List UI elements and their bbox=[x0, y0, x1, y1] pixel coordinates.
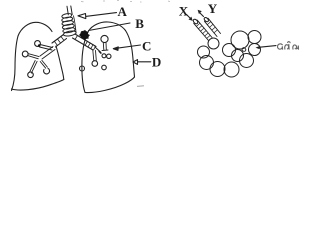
small vertical bronchiole bbox=[93, 50, 97, 61]
svg-text:B: B bbox=[135, 16, 144, 31]
twin circle a bbox=[102, 54, 106, 58]
alveolus bottom-middle-right bbox=[224, 62, 239, 77]
left bronchus rungs bbox=[55, 37, 65, 46]
c2 stalk bbox=[28, 54, 39, 59]
tube X (bronchiole) opening bbox=[192, 18, 198, 24]
bronchiole c4 loop bbox=[44, 68, 50, 74]
label D arrowhead (open) bbox=[133, 60, 138, 65]
label C leader bbox=[116, 45, 141, 48]
alveolus big top-right bbox=[231, 31, 249, 49]
c1 stalk bbox=[40, 45, 53, 51]
inner tube from bronchus bbox=[95, 47, 101, 53]
left lung left edge bbox=[12, 36, 19, 91]
trachea right wall bbox=[74, 16, 77, 34]
C-circle stem bbox=[102, 43, 108, 51]
faint bottom dash bbox=[137, 85, 144, 88]
right bronchus tube bbox=[73, 34, 97, 50]
trachea coil ring 6 bbox=[63, 30, 76, 37]
trachea coil ring 2 bbox=[61, 16, 73, 22]
trachea coil ring 4 bbox=[62, 23, 75, 29]
alveolus bottom-middle-left bbox=[210, 62, 225, 77]
label A leader bbox=[86, 13, 117, 17]
Y arrowhead bbox=[198, 10, 202, 14]
tube Y (vessel) opening bbox=[203, 17, 209, 23]
svg-text:D: D bbox=[152, 54, 161, 69]
right bronchus rungs bbox=[75, 36, 96, 50]
bronchiole c3 circle bbox=[28, 72, 34, 78]
alveolus left bbox=[198, 46, 210, 58]
alveolus inner squiggle bbox=[242, 48, 246, 52]
svg-text:X: X bbox=[179, 4, 189, 19]
alveolus right bbox=[249, 44, 261, 56]
small circle bottom-left of right lung bbox=[80, 66, 85, 71]
blockage blob (B target) bbox=[79, 30, 89, 40]
right lung right edge bbox=[126, 31, 135, 78]
arm down-left to c3 bbox=[30, 61, 38, 74]
tube Y rungs bbox=[207, 22, 217, 33]
small circle below vertical tube bbox=[92, 61, 98, 67]
tube Y walls bbox=[205, 18, 221, 36]
trachea top tube bbox=[67, 6, 72, 15]
X arrowhead bbox=[189, 17, 193, 21]
left lung bottom edge bbox=[12, 80, 64, 91]
right lung outline top dome bbox=[89, 22, 126, 31]
caption text (Sinhala-like scribble) bbox=[278, 42, 299, 50]
alveolus top-right bbox=[248, 31, 261, 44]
caption arrowhead bbox=[256, 46, 261, 49]
alveolus lower-right bbox=[240, 54, 254, 68]
label A arrowhead (open) bbox=[78, 14, 86, 19]
alveolus center-left bbox=[208, 38, 219, 49]
alveolus center-right bridge bbox=[232, 50, 244, 62]
label C arrowhead bbox=[113, 47, 118, 51]
svg-text:Y: Y bbox=[208, 1, 218, 16]
twin circle b bbox=[107, 54, 111, 58]
left bronchus tube bbox=[52, 35, 67, 48]
alveolus bottom-left bbox=[200, 56, 214, 70]
X arrow bbox=[187, 15, 191, 19]
tube X walls bbox=[194, 20, 212, 40]
left lung bronchiole hub tube from hilum bbox=[40, 47, 55, 60]
tube X rungs bbox=[196, 23, 210, 38]
arm down-right to c4 bbox=[40, 60, 47, 68]
caption leader line bbox=[259, 46, 277, 48]
right lung bottom edge bbox=[85, 77, 135, 93]
right lung C-target circle bbox=[101, 35, 108, 42]
small circle bottom-mid of right lung bbox=[102, 65, 107, 70]
label B leader bbox=[89, 23, 131, 31]
left lung right edge bbox=[56, 46, 64, 80]
alveolus center small bbox=[223, 44, 236, 57]
trachea coil ring 3 bbox=[62, 20, 74, 26]
bronchiole c2 circle bbox=[22, 51, 28, 57]
bronchiole c1 circle bbox=[35, 41, 41, 47]
trachea coil ring 5 bbox=[62, 27, 75, 34]
right lung left edge bbox=[82, 31, 89, 93]
svg-text:A: A bbox=[118, 4, 128, 19]
faint top-edge specks bbox=[81, 1, 170, 3]
svg-text:C: C bbox=[142, 38, 151, 53]
c1 black dot bbox=[38, 44, 41, 47]
left lung outline bbox=[18, 22, 52, 36]
label D leader bbox=[138, 61, 151, 63]
Y arrow bbox=[200, 13, 204, 17]
twin connector bbox=[99, 52, 101, 54]
trachea coil ring 1 (top opening) bbox=[62, 13, 73, 19]
